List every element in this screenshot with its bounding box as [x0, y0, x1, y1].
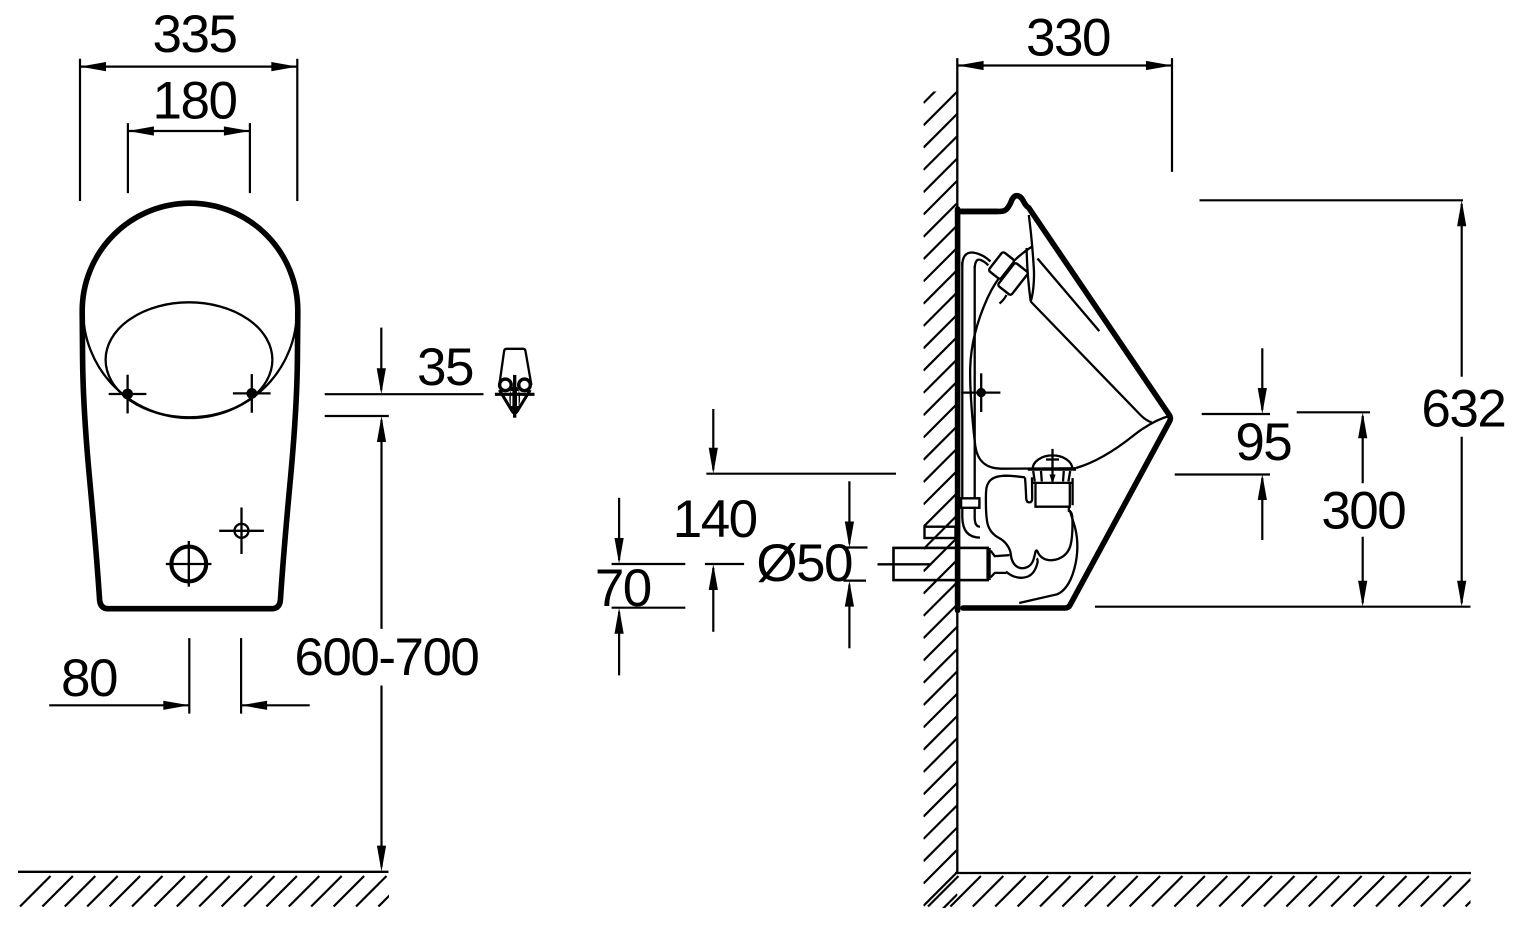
dim 330 extension line right: [1171, 58, 1173, 172]
svg-text:80: 80: [61, 649, 117, 708]
spreader nut piece 2: [997, 262, 1028, 295]
dim 35 down arrow: [377, 328, 386, 395]
water supply stub through wall: [925, 527, 956, 538]
bowl back curve: [970, 246, 1076, 468]
trap lower tube bottom: [1006, 558, 1038, 578]
trap upper outline: [986, 476, 1073, 568]
dim Ø50 up arrow: [845, 581, 854, 649]
outlet pipe centerline: [878, 563, 932, 565]
dim 140 top line: [706, 473, 896, 475]
supply pipe top elbow outer: [962, 252, 990, 266]
waste outlet pipe through wall: [894, 548, 988, 580]
dim 95 lower line: [1175, 473, 1270, 475]
SIDE VIEW (right): [595, 9, 1506, 929]
dim 35 upper line: [325, 393, 484, 395]
dim 70 down arrow: [615, 498, 624, 564]
shell inner line bottom right: [1019, 511, 1077, 604]
drain hole circle-cross: [166, 541, 212, 587]
supply pipe bottom elbow outer: [962, 508, 980, 538]
mounting hole cross left: [109, 375, 147, 414]
supply pipe top elbow inner: [975, 260, 989, 268]
urinal back wall thick line: [955, 209, 961, 610]
dim 140 bottom line: [705, 563, 744, 565]
svg-text:180: 180: [153, 72, 237, 131]
dim Ø50 bottom line: [843, 579, 866, 581]
dim 95 down arrow: [1258, 348, 1267, 414]
drain dome cap: [1033, 455, 1073, 469]
drain cup: [1031, 478, 1073, 507]
svg-text:35: 35: [417, 338, 473, 397]
dim 70 up arrow: [615, 608, 624, 676]
spreader top-view icon: [495, 349, 535, 418]
rim ellipse: [106, 302, 273, 417]
rim lip inner line: [1027, 248, 1031, 302]
rim lip outer line from hump: [1029, 215, 1034, 302]
svg-text:95: 95: [1235, 413, 1291, 472]
urinal outer outline: [82, 203, 298, 609]
dim Ø50 top line: [845, 546, 868, 548]
dim 80 right arrow line: [241, 701, 310, 710]
mounting cross side view: [961, 373, 1000, 412]
bowl bottom curve to tip: [1076, 416, 1170, 468]
svg-text:632: 632: [1421, 380, 1505, 439]
spreader nut piece 1: [988, 251, 1015, 279]
dim 300 top reference line: [1297, 411, 1370, 413]
dim 330 line with arrows: [958, 61, 1172, 70]
dim 632 vertical line with arrows: [1457, 200, 1466, 606]
dim 600-700 vertical line with up arrow at 416: [377, 416, 386, 872]
svg-text:140: 140: [673, 490, 757, 549]
urinal top edge thick overlay: [958, 209, 997, 215]
bowl circle (thin full circle, lower part visible): [83, 204, 297, 418]
dim 180 extension line right: [249, 123, 251, 193]
mounting hole cross right: [233, 374, 271, 413]
supply pipe union collar: [961, 498, 979, 508]
floor line right: [955, 872, 1471, 874]
floor hatch right: [928, 876, 1496, 907]
svg-text:300: 300: [1321, 481, 1405, 540]
dim 80 left arrow line: [49, 701, 189, 710]
wall hatch: [924, 69, 958, 928]
svg-text:330: 330: [1026, 9, 1110, 68]
wall face line: [956, 58, 958, 873]
dim 335 line with arrows: [80, 62, 297, 71]
outlet cone top: [991, 551, 1010, 557]
svg-text:70: 70: [595, 559, 651, 618]
drain trumpet right: [1063, 471, 1070, 482]
dim 70 bottom line: [612, 607, 686, 609]
dim 180 extension line left: [127, 123, 129, 193]
supply pipe vertical lines: [961, 262, 963, 498]
svg-text:Ø50: Ø50: [756, 534, 852, 593]
drain trumpet left: [1033, 471, 1042, 482]
dim 632 top reference line: [1200, 199, 1464, 201]
svg-text:335: 335: [153, 5, 237, 64]
svg-text:600-700: 600-700: [294, 628, 478, 687]
dim 140 up arrow: [709, 564, 718, 632]
floor line left: [18, 871, 389, 873]
supply pipe bottom elbow inner: [975, 508, 980, 527]
dim 140 down arrow: [709, 409, 718, 474]
FRONT VIEW (left): [18, 5, 535, 907]
trap U-notch channel: [1025, 477, 1032, 502]
dim 95 up arrow: [1258, 474, 1267, 540]
dim Ø50 down arrow: [845, 481, 854, 547]
small fixing cross: [219, 508, 264, 555]
drain flange line: [1028, 468, 1076, 470]
dim 180 line with arrows: [128, 126, 250, 135]
drain stem: [1046, 449, 1059, 484]
dim 80 extension line left: [188, 638, 190, 714]
inner bowl front line B: [1031, 302, 1152, 423]
outlet pipe flange second line: [988, 548, 990, 580]
dim 95 upper line: [1202, 413, 1270, 415]
dim 70 top line: [612, 563, 686, 565]
dim 300 vertical line with arrows: [1358, 412, 1367, 606]
dim 80 extension line right: [240, 638, 242, 714]
dim 335 extension line left: [79, 59, 81, 201]
floor hatch left: [20, 876, 409, 907]
dim 35 lower line: [325, 415, 389, 417]
dim 335 extension line right: [296, 59, 298, 201]
urinal side outline: [958, 196, 1171, 608]
bottom reference line: [1095, 606, 1471, 608]
inner rim line A: [1038, 259, 1100, 332]
spreader outlet tip: [1000, 295, 1007, 304]
outlet cone bottom: [991, 573, 1007, 578]
